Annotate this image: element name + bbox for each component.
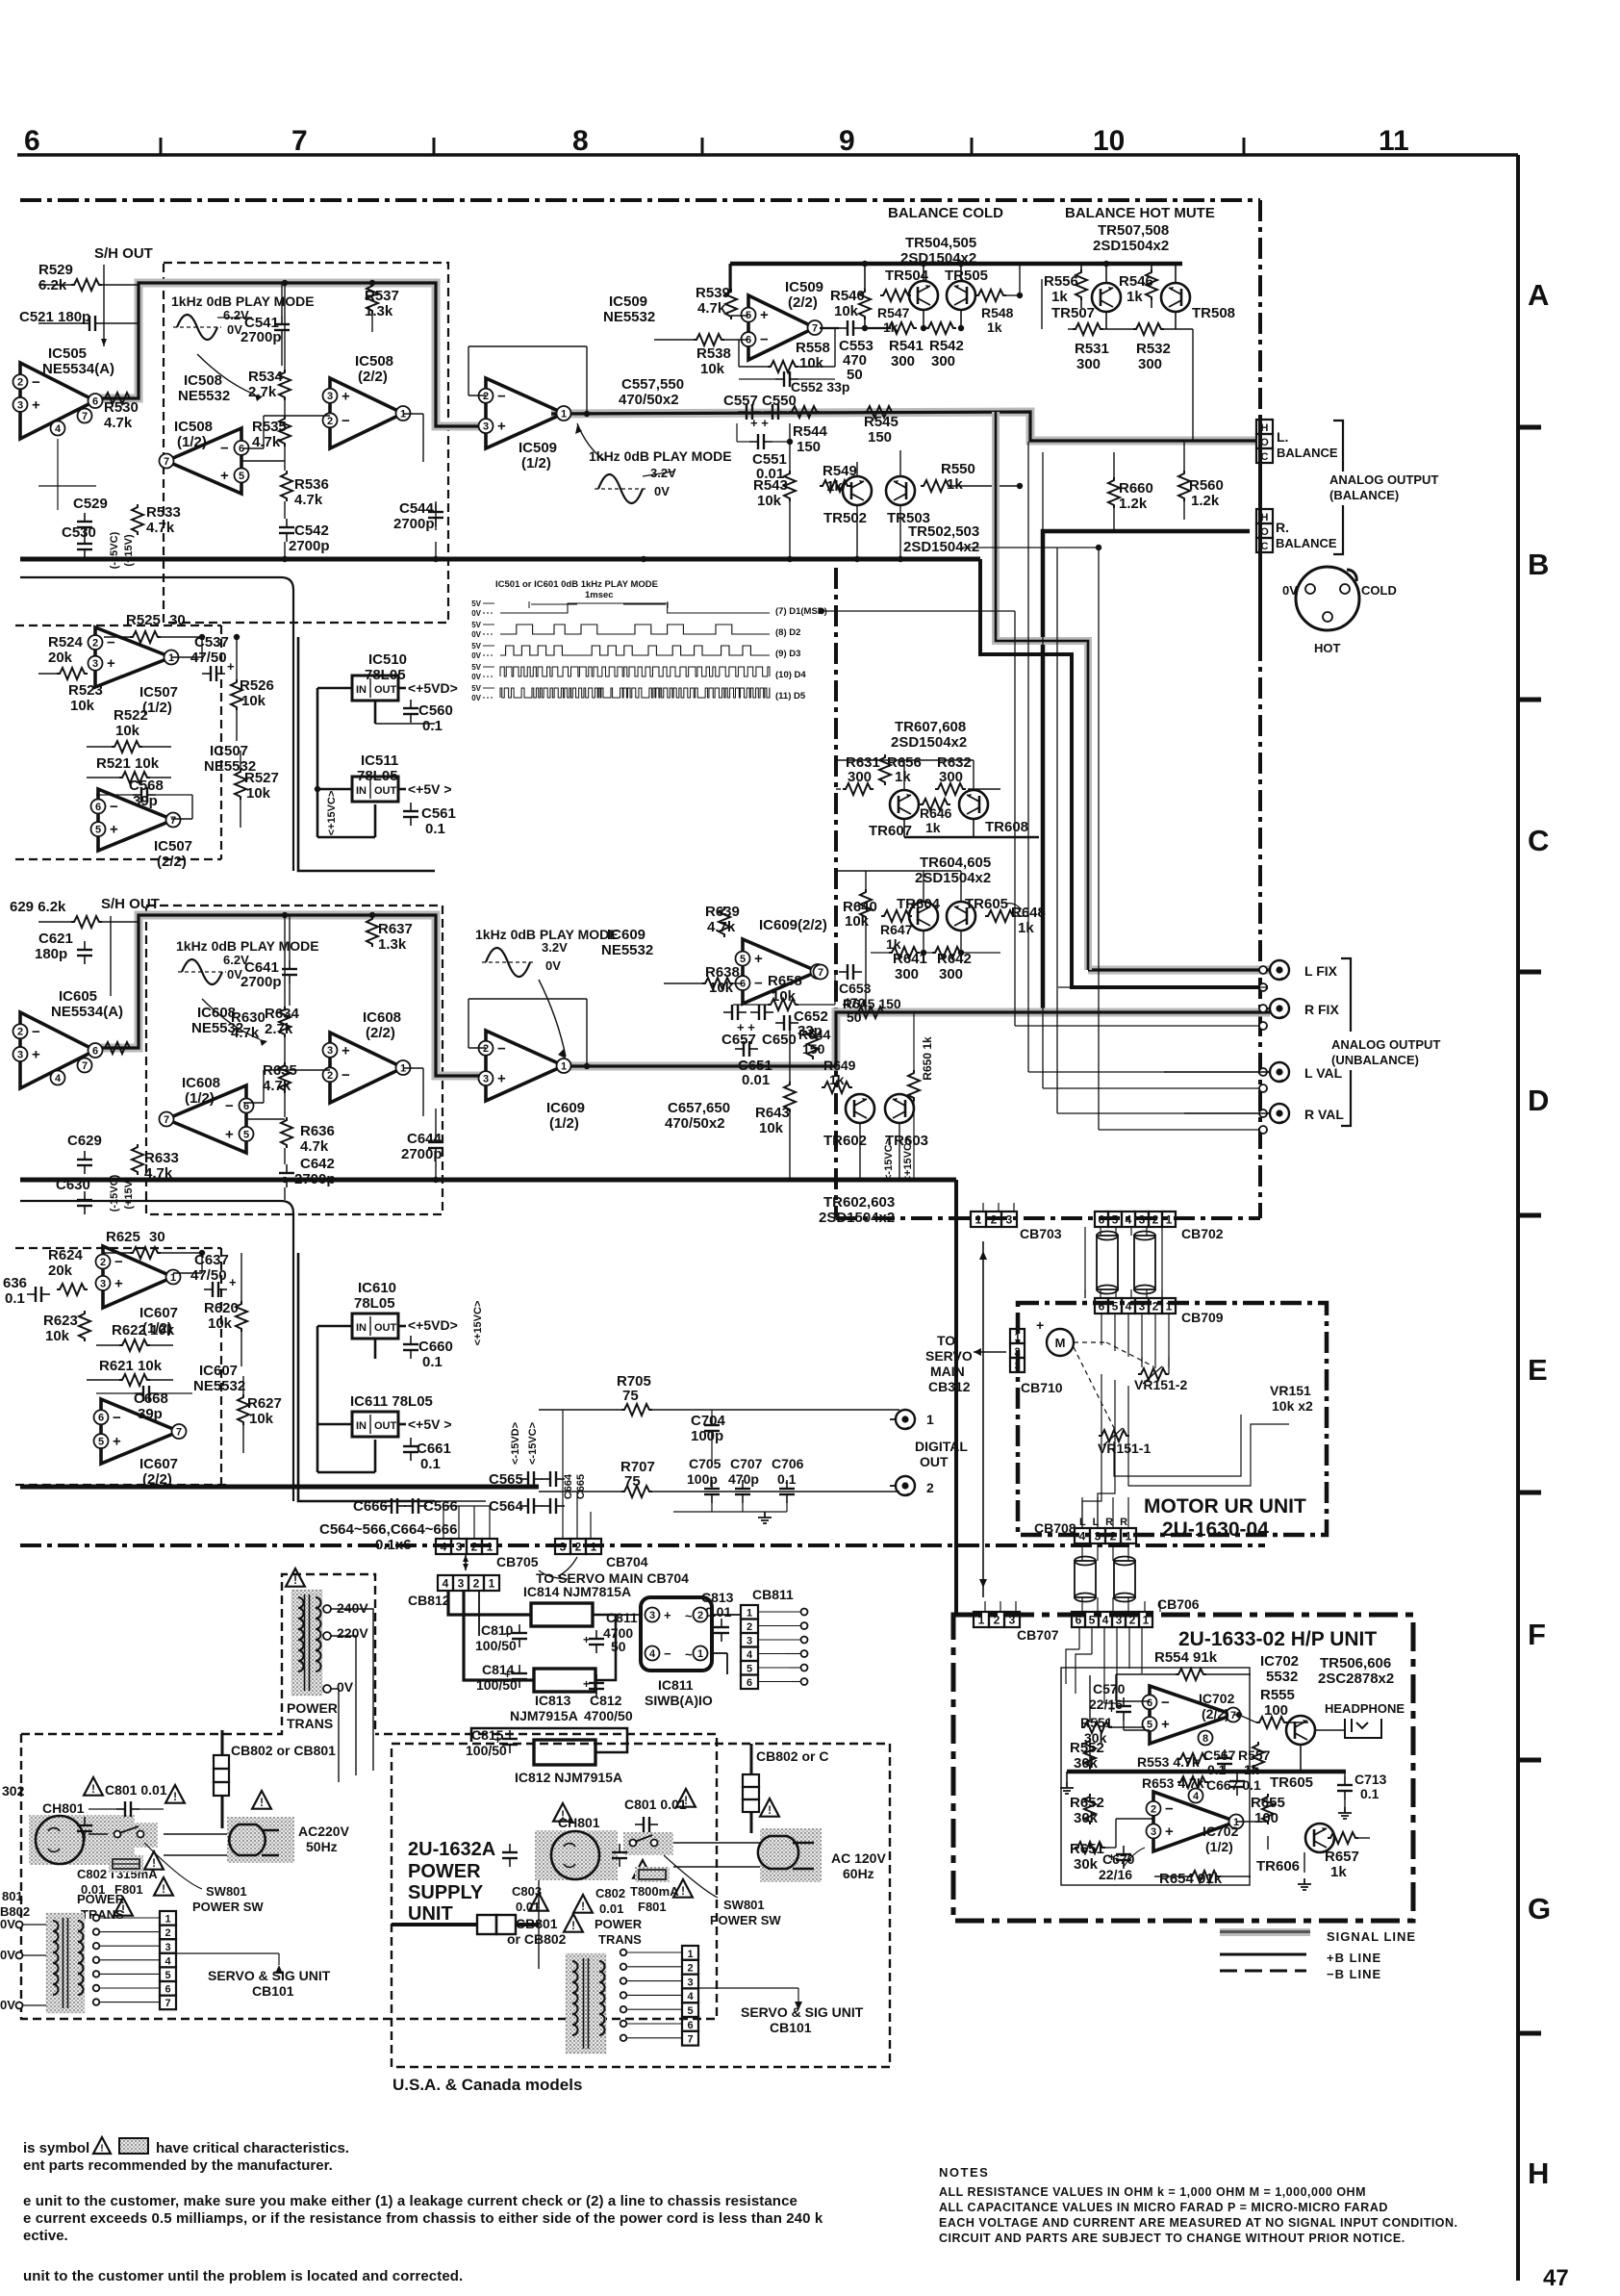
svg-text:3: 3 [1006, 1213, 1013, 1227]
svg-text:C802: C802 [77, 1867, 107, 1881]
svg-text:1k: 1k [895, 769, 911, 785]
svg-text:7: 7 [687, 2034, 693, 2046]
svg-text:6: 6 [92, 395, 98, 407]
svg-text:R548: R548 [981, 305, 1014, 320]
svg-text:2: 2 [17, 377, 23, 389]
svg-text:IC508: IC508 [355, 353, 393, 370]
svg-text:2: 2 [483, 1043, 489, 1055]
svg-text:4: 4 [1126, 1300, 1132, 1314]
svg-text:NE5532: NE5532 [193, 1378, 245, 1394]
svg-text:1: 1 [687, 1949, 693, 1960]
svg-text:CB312: CB312 [928, 1379, 971, 1394]
svg-text:C552 33p: C552 33p [791, 379, 849, 395]
svg-text:7: 7 [164, 456, 169, 468]
svg-text:2700p: 2700p [240, 329, 282, 345]
svg-text:8: 8 [1202, 1733, 1208, 1745]
svg-text:+: + [227, 659, 235, 674]
svg-text:IC608: IC608 [197, 1005, 236, 1021]
svg-text:1: 1 [1166, 1300, 1173, 1314]
svg-text:+: + [1165, 1824, 1174, 1840]
svg-text:(10) D4: (10) D4 [775, 670, 806, 680]
svg-text:636: 636 [3, 1275, 27, 1291]
svg-text:20k: 20k [48, 1263, 73, 1279]
svg-text:~: ~ [685, 1647, 693, 1662]
svg-text:TRANS: TRANS [81, 1907, 124, 1922]
svg-text:C567: C567 [1203, 1748, 1236, 1763]
svg-text:MOTOR UR UNIT: MOTOR UR UNIT [1144, 1495, 1306, 1518]
svg-text:POWER: POWER [595, 1917, 643, 1931]
svg-text:+: + [229, 1275, 237, 1289]
svg-text:IC508: IC508 [174, 419, 213, 435]
svg-text:5: 5 [740, 954, 746, 965]
svg-text:150: 150 [802, 1041, 825, 1057]
svg-text:POWER SW: POWER SW [192, 1900, 264, 1914]
svg-text:10k: 10k [799, 355, 824, 371]
svg-text:SERVO & SIG UNIT: SERVO & SIG UNIT [208, 1968, 331, 1983]
svg-text:E: E [1528, 1353, 1548, 1387]
svg-text:6: 6 [165, 1984, 170, 1996]
svg-text:22/16: 22/16 [1099, 1867, 1132, 1882]
svg-text:NE5532: NE5532 [178, 388, 230, 404]
svg-text:2SD1504x2: 2SD1504x2 [915, 870, 991, 886]
svg-text:L FIX: L FIX [1304, 963, 1338, 979]
svg-text:BALANCE: BALANCE [1276, 536, 1337, 550]
svg-text:−: − [113, 1410, 121, 1426]
svg-text:0V: 0V [0, 1998, 15, 2012]
svg-text:+: + [1108, 1702, 1115, 1716]
svg-text:4: 4 [687, 1991, 694, 2003]
svg-text:1.2k: 1.2k [1191, 493, 1220, 509]
svg-text:C812: C812 [590, 1693, 622, 1708]
svg-text:C660: C660 [418, 1339, 453, 1355]
svg-text:5: 5 [95, 825, 101, 836]
svg-text:3: 3 [1139, 1300, 1146, 1314]
svg-text:75: 75 [622, 1388, 639, 1404]
svg-text:A: A [1528, 278, 1549, 312]
svg-text:+: + [107, 655, 115, 672]
svg-text:4: 4 [1102, 1614, 1109, 1627]
svg-text:4700/50: 4700/50 [584, 1708, 633, 1723]
svg-text:10k: 10k [700, 361, 725, 377]
svg-text:0.1: 0.1 [1360, 1786, 1380, 1801]
svg-text:+: + [497, 1071, 506, 1087]
svg-text:CIRCUIT AND PARTS ARE SUBJECT: CIRCUIT AND PARTS ARE SUBJECT TO CHANGE … [939, 2232, 1405, 2245]
svg-text:1k: 1k [1018, 920, 1034, 936]
svg-text:5V: 5V [471, 600, 481, 608]
svg-text:R542: R542 [929, 338, 964, 354]
svg-text:2: 2 [471, 1541, 478, 1554]
svg-text:C544: C544 [399, 500, 435, 517]
svg-text:CB709: CB709 [1181, 1310, 1224, 1325]
svg-text:R658: R658 [768, 973, 802, 989]
svg-text:1kHz 0dB PLAY MODE: 1kHz 0dB PLAY MODE [176, 938, 319, 954]
svg-text:IC814 NJM7815A: IC814 NJM7815A [523, 1584, 631, 1599]
svg-text:+: + [754, 951, 763, 967]
svg-text:(1/2): (1/2) [521, 455, 551, 472]
svg-text:−: − [664, 1646, 671, 1661]
svg-text:NE5532: NE5532 [603, 309, 655, 325]
svg-text:C704: C704 [691, 1413, 726, 1429]
svg-text:2: 2 [994, 1614, 1000, 1627]
svg-text:CB802 or C: CB802 or C [756, 1748, 828, 1764]
svg-text:1: 1 [170, 1272, 176, 1284]
svg-text:(-15VC): (-15VC) [109, 531, 120, 569]
svg-text:TRANS: TRANS [598, 1932, 642, 1947]
svg-text:2: 2 [697, 1610, 703, 1621]
svg-text:IC607: IC607 [139, 1456, 178, 1472]
svg-text:2700p: 2700p [240, 974, 282, 990]
svg-text:11: 11 [1379, 125, 1409, 157]
svg-text:7: 7 [170, 815, 176, 827]
svg-text:1: 1 [165, 1914, 170, 1926]
svg-text:TR605: TR605 [965, 896, 1008, 912]
svg-text:R534: R534 [248, 369, 284, 385]
svg-text:IC507: IC507 [154, 838, 192, 855]
svg-text:1.3k: 1.3k [365, 303, 393, 319]
svg-text:NE5532: NE5532 [601, 942, 653, 958]
svg-text:+: + [1036, 1317, 1044, 1333]
svg-text:TR602,603: TR602,603 [823, 1194, 895, 1211]
svg-text:C667 0.1: C667 0.1 [1206, 1777, 1261, 1793]
svg-text:<-15VC>: <-15VC> [527, 1422, 539, 1465]
svg-text:IC507: IC507 [210, 743, 248, 759]
svg-text:3: 3 [456, 1541, 463, 1554]
svg-text:C564: C564 [489, 1498, 524, 1515]
svg-text:+ +: + + [750, 416, 769, 430]
svg-text:0.01: 0.01 [705, 1604, 731, 1620]
svg-text:629 6.2k: 629 6.2k [10, 899, 66, 915]
svg-text:R637: R637 [378, 921, 413, 937]
svg-text:0.1x6: 0.1x6 [375, 1537, 412, 1553]
svg-text:IC510: IC510 [368, 651, 407, 668]
svg-text:1: 1 [1166, 1213, 1173, 1227]
svg-text:50: 50 [847, 1009, 862, 1025]
svg-text:4.7k: 4.7k [144, 1165, 173, 1182]
svg-text:1k: 1k [1126, 289, 1143, 305]
svg-text:7: 7 [164, 1114, 169, 1126]
svg-text:2SD1504x2: 2SD1504x2 [819, 1210, 895, 1226]
svg-text:R VAL: R VAL [1304, 1107, 1344, 1122]
svg-text:0.01: 0.01 [756, 466, 784, 482]
svg-text:3: 3 [1151, 1826, 1156, 1838]
svg-text:5: 5 [687, 2005, 693, 2017]
svg-text:3: 3 [560, 1541, 567, 1554]
svg-text:ALL RESISTANCE VALUES IN OHM k: ALL RESISTANCE VALUES IN OHM k = 1,000 O… [939, 2185, 1366, 2199]
svg-text:AC220V: AC220V [298, 1824, 350, 1839]
svg-text:50Hz: 50Hz [306, 1839, 338, 1854]
svg-text:R532: R532 [1136, 341, 1171, 357]
svg-text:R625: R625 [106, 1229, 140, 1245]
svg-text:<+5VD>: <+5VD> [408, 1317, 458, 1333]
svg-text:180p: 180p [35, 946, 67, 962]
svg-text:+: + [497, 419, 506, 435]
svg-text:POWER: POWER [77, 1892, 125, 1906]
svg-text:6: 6 [747, 1677, 752, 1689]
svg-text:1.2k: 1.2k [1119, 496, 1148, 512]
svg-text:e current exceeds 0.5 milliamp: e current exceeds 0.5 milliamps, or if t… [23, 2210, 823, 2227]
svg-text:2: 2 [100, 1257, 106, 1268]
svg-text:6: 6 [95, 802, 101, 813]
svg-text:H: H [1261, 512, 1269, 523]
svg-text:6: 6 [1147, 1697, 1152, 1709]
svg-text:<+5V >: <+5V > [408, 781, 452, 797]
svg-text:2: 2 [926, 1480, 934, 1495]
svg-text:C666: C666 [353, 1498, 388, 1515]
svg-text:(2/2): (2/2) [1202, 1706, 1229, 1722]
svg-text:−: − [225, 1098, 234, 1114]
svg-text:R544: R544 [793, 423, 828, 440]
svg-text:IN: IN [356, 785, 367, 797]
svg-text:SW801: SW801 [723, 1898, 765, 1912]
svg-text:R649: R649 [823, 1058, 856, 1073]
svg-text:100p: 100p [687, 1471, 718, 1487]
svg-text:+: + [583, 1633, 590, 1646]
svg-text:CB705: CB705 [496, 1554, 539, 1569]
svg-text:!: ! [581, 1901, 585, 1913]
svg-text:+: + [342, 388, 350, 404]
svg-text:C: C [1261, 541, 1269, 552]
svg-text:+: + [583, 1677, 590, 1691]
svg-text:IC607: IC607 [199, 1363, 238, 1379]
svg-text:UNIT: UNIT [408, 1903, 453, 1925]
svg-text:2SD1504x2: 2SD1504x2 [1093, 238, 1169, 254]
svg-text:3: 3 [747, 1636, 752, 1647]
svg-text:(7) D1(MSB): (7) D1(MSB) [775, 606, 827, 617]
svg-text:R620: R620 [204, 1300, 239, 1316]
svg-text:150: 150 [797, 439, 821, 455]
svg-text:R.: R. [1276, 520, 1289, 535]
svg-text:!: ! [561, 1810, 565, 1822]
svg-text:TR502: TR502 [823, 510, 867, 526]
svg-text:−: − [1161, 1695, 1170, 1711]
svg-text:BALANCE: BALANCE [1277, 446, 1338, 460]
svg-text:TR504,505: TR504,505 [905, 235, 976, 251]
svg-text:(UNBALANCE): (UNBALANCE) [1331, 1053, 1419, 1067]
svg-text:(11) D5: (11) D5 [775, 691, 806, 702]
svg-text:0V: 0V [545, 958, 561, 973]
svg-text:2: 2 [1152, 1213, 1159, 1227]
svg-text:50: 50 [847, 367, 863, 383]
svg-text:30k: 30k [1074, 1856, 1099, 1873]
svg-text:0.1: 0.1 [422, 1354, 443, 1370]
svg-text:220V: 220V [337, 1625, 368, 1641]
svg-text:R638: R638 [705, 964, 740, 981]
svg-text:CB707: CB707 [1017, 1627, 1059, 1643]
svg-text:(9) D3: (9) D3 [775, 649, 800, 659]
svg-text:BALANCE COLD: BALANCE COLD [888, 205, 1003, 221]
svg-text:3: 3 [17, 1049, 23, 1060]
svg-text:CB101: CB101 [252, 1983, 294, 1999]
svg-text:3: 3 [1139, 1213, 1146, 1227]
svg-text:TO: TO [937, 1333, 955, 1348]
svg-text:<+15VC>: <+15VC> [902, 1137, 914, 1183]
svg-text:IC702: IC702 [1260, 1653, 1299, 1670]
svg-text:!: ! [260, 1798, 264, 1809]
svg-text:OUT: OUT [920, 1454, 949, 1469]
svg-text:4: 4 [441, 1541, 447, 1554]
svg-text:IC702: IC702 [1199, 1691, 1235, 1706]
svg-text:10k: 10k [208, 1315, 233, 1332]
svg-text:7: 7 [176, 1426, 182, 1438]
svg-text:+: + [32, 396, 40, 413]
svg-text:G: G [1528, 1892, 1551, 1926]
svg-text:6: 6 [98, 1413, 104, 1424]
svg-text:R525: R525 [126, 612, 161, 628]
svg-text:IC501 or IC601 0dB 1kHz PLAY: IC501 or IC601 0dB 1kHz PLAY MODE [495, 579, 658, 590]
svg-text:2: 2 [1110, 1530, 1117, 1543]
svg-text:300: 300 [1076, 356, 1101, 372]
svg-text:7: 7 [82, 411, 88, 422]
svg-text:+B LINE: +B LINE [1327, 1951, 1381, 1965]
svg-text:−: − [342, 413, 350, 429]
svg-text:−B LINE: −B LINE [1327, 1967, 1381, 1981]
svg-text:CB706: CB706 [1157, 1596, 1200, 1612]
svg-text:3: 3 [1095, 1530, 1101, 1543]
svg-text:801: 801 [2, 1889, 23, 1903]
svg-text:R624: R624 [48, 1247, 84, 1263]
svg-text:R555: R555 [1260, 1687, 1295, 1703]
svg-text:IC509: IC509 [785, 279, 823, 295]
svg-text:R539: R539 [696, 285, 730, 301]
svg-text:1: 1 [487, 1541, 494, 1554]
svg-text:3: 3 [1116, 1614, 1123, 1627]
svg-text:SW801: SW801 [206, 1884, 247, 1899]
svg-text:R540: R540 [830, 288, 865, 304]
svg-text:3.2V: 3.2V [542, 940, 568, 955]
svg-text:AC 120V: AC 120V [831, 1850, 886, 1866]
svg-text:F801: F801 [638, 1900, 667, 1914]
svg-text:2: 2 [92, 637, 98, 649]
svg-text:IN: IN [356, 684, 367, 696]
svg-text:5: 5 [239, 471, 244, 482]
svg-text:C564~566,C664~666: C564~566,C664~666 [319, 1521, 457, 1538]
svg-text:R526: R526 [240, 677, 274, 694]
svg-text:VR151: VR151 [1270, 1383, 1311, 1398]
svg-text:C644: C644 [407, 1131, 443, 1147]
svg-text:4.7k: 4.7k [104, 415, 133, 431]
svg-text:C529: C529 [73, 496, 108, 512]
svg-text:SERVO: SERVO [925, 1348, 973, 1364]
svg-text:5: 5 [1089, 1614, 1096, 1627]
svg-text:POWER SW: POWER SW [710, 1913, 781, 1927]
svg-text:0.01: 0.01 [742, 1072, 770, 1088]
svg-text:0.1: 0.1 [420, 1456, 441, 1472]
svg-text:−: − [220, 440, 229, 456]
svg-text:30: 30 [149, 1229, 165, 1245]
svg-text:300: 300 [895, 966, 919, 982]
svg-text:1k: 1k [1330, 1864, 1347, 1880]
svg-text:4.7k: 4.7k [697, 300, 726, 317]
svg-text:0.1: 0.1 [425, 821, 445, 837]
svg-text:0.01: 0.01 [599, 1901, 623, 1916]
svg-text:(-15VC): (-15VC) [109, 1174, 120, 1212]
svg-text:IC812 NJM7915A: IC812 NJM7915A [515, 1770, 622, 1785]
svg-text:+: + [494, 1733, 501, 1747]
svg-text:is symbol: is symbol [23, 2140, 89, 2156]
svg-text:R550: R550 [941, 461, 975, 477]
svg-text:R648: R648 [1011, 905, 1046, 921]
svg-text:IC609(2/2): IC609(2/2) [759, 917, 827, 933]
svg-text:CB710: CB710 [1021, 1380, 1063, 1395]
svg-text:!: ! [91, 1784, 95, 1796]
svg-text:1: 1 [975, 1213, 982, 1227]
svg-text:300: 300 [931, 353, 955, 370]
svg-text:~: ~ [685, 1609, 693, 1623]
svg-text:M: M [1055, 1336, 1066, 1350]
svg-text:(+15V): (+15V) [123, 1177, 135, 1210]
svg-text:OUT: OUT [374, 1322, 397, 1334]
svg-text:NOTES: NOTES [939, 2165, 989, 2180]
svg-text:CB101: CB101 [770, 2020, 812, 2035]
svg-text:C542: C542 [294, 523, 329, 539]
svg-text:+: + [504, 1627, 511, 1641]
svg-text:2U-1632A: 2U-1632A [408, 1839, 495, 1860]
svg-text:1: 1 [747, 1608, 752, 1620]
svg-text:TR507: TR507 [1051, 305, 1095, 321]
svg-text:2.7k: 2.7k [265, 1021, 293, 1037]
svg-text:47: 47 [1543, 2265, 1569, 2291]
svg-text:S/H OUT: S/H OUT [94, 245, 153, 262]
svg-text:4: 4 [1126, 1213, 1132, 1227]
svg-text:5V: 5V [471, 642, 481, 651]
svg-text:1: 1 [591, 1541, 597, 1554]
svg-text:IC505: IC505 [48, 345, 87, 362]
svg-text:IC511: IC511 [361, 753, 398, 769]
svg-text:6: 6 [1099, 1300, 1105, 1314]
svg-text:10k: 10k [70, 698, 95, 714]
svg-text:1: 1 [1014, 1332, 1020, 1343]
svg-text:300: 300 [1138, 356, 1162, 372]
svg-text:C811: C811 [606, 1610, 638, 1625]
svg-text:IC608: IC608 [363, 1009, 401, 1026]
svg-text:COLD: COLD [1361, 583, 1397, 598]
svg-text:+: + [664, 1608, 671, 1622]
svg-text:<-15VC>: <-15VC> [883, 1138, 895, 1181]
svg-text:TR605: TR605 [1270, 1774, 1313, 1791]
svg-text:3: 3 [649, 1610, 655, 1621]
svg-text:R560: R560 [1189, 477, 1224, 494]
svg-text:<-15VD>: <-15VD> [510, 1422, 521, 1465]
svg-text:47/50: 47/50 [190, 1267, 227, 1284]
svg-text:VR151-1: VR151-1 [1098, 1441, 1151, 1456]
svg-text:1: 1 [1143, 1614, 1150, 1627]
svg-text:C570: C570 [1093, 1681, 1126, 1696]
svg-text:3: 3 [483, 421, 489, 433]
svg-text:R558: R558 [796, 340, 830, 356]
svg-text:10k: 10k [249, 1411, 274, 1427]
svg-text:L VAL: L VAL [1304, 1065, 1343, 1081]
svg-text:e unit to the customer, make s: e unit to the customer, make sure you ma… [23, 2193, 797, 2209]
svg-text:4: 4 [1193, 1791, 1200, 1802]
svg-text:<+15VC>: <+15VC> [472, 1301, 484, 1346]
svg-text:1k: 1k [925, 820, 941, 835]
svg-text:0V: 0V [471, 609, 481, 618]
svg-text:C713: C713 [1354, 1772, 1387, 1787]
svg-text:POWER: POWER [287, 1700, 338, 1716]
svg-text:SERVO & SIG UNIT: SERVO & SIG UNIT [741, 2004, 864, 2020]
svg-text:10k: 10k [246, 785, 271, 802]
svg-text:+: + [220, 468, 229, 484]
svg-text:IC813: IC813 [535, 1693, 571, 1708]
svg-text:!: ! [684, 1796, 688, 1807]
svg-text:0.1: 0.1 [5, 1290, 25, 1307]
svg-text:R523: R523 [68, 682, 103, 699]
svg-text:(2/2): (2/2) [358, 369, 388, 385]
svg-text:R623: R623 [43, 1313, 78, 1329]
svg-text:IC609: IC609 [607, 927, 645, 943]
svg-text:6: 6 [1076, 1614, 1082, 1627]
svg-text:5: 5 [747, 1664, 752, 1675]
